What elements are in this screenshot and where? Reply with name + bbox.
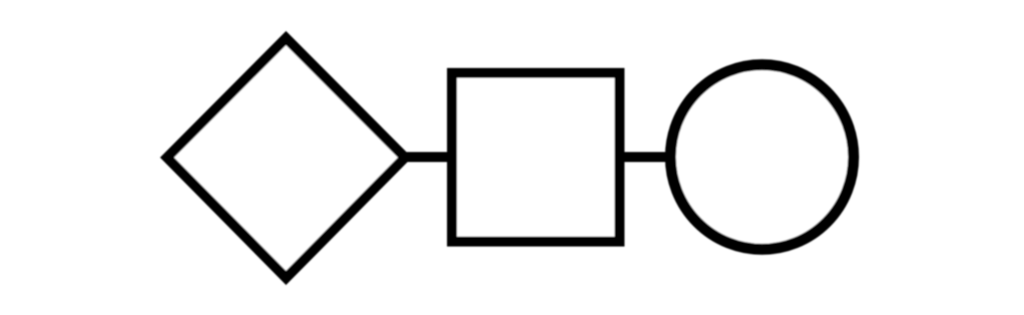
node A: [167, 38, 405, 278]
wire: [405, 152, 452, 162]
wire: [619, 152, 670, 162]
node B: [452, 73, 620, 242]
node C: [671, 65, 854, 250]
